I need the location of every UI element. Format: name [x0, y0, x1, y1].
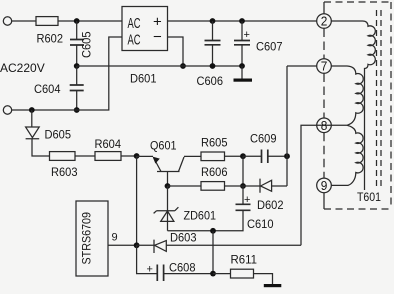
pin 9 circle — [317, 178, 332, 193]
node emitter junction — [134, 153, 140, 159]
svg-text:C604: C604 — [34, 82, 61, 96]
capacitor C604 — [76, 66, 78, 110]
wire node B down to node C — [242, 156, 244, 186]
wire pin8 drop — [301, 125, 317, 245]
svg-text:R604: R604 — [95, 137, 122, 151]
transformer frame top/right/bottom dashed — [324, 1, 391, 3]
node snubber tee — [210, 228, 216, 234]
resistor R603 — [50, 152, 76, 161]
wire bridge minus leg — [168, 37, 184, 66]
diode D605 — [26, 110, 50, 156]
wire pin7 drop — [287, 66, 317, 186]
wire junction to R611 — [213, 273, 231, 275]
pin 7 circle — [317, 59, 332, 74]
wire R602 to bridge AC1 — [58, 20, 122, 22]
ground symbol main — [241, 66, 243, 79]
svg-text:D603: D603 — [170, 231, 197, 245]
node pin9 junction — [134, 242, 140, 248]
wire R604 to emitter node — [121, 155, 137, 157]
svg-text:9: 9 — [112, 232, 118, 244]
zener ZD601 — [154, 186, 179, 231]
resistor R602 — [36, 17, 58, 26]
svg-text:D601: D601 — [130, 72, 157, 86]
bridge rectifier D601 — [122, 7, 168, 51]
svg-text:C609: C609 — [250, 132, 277, 146]
svg-text:C606: C606 — [197, 74, 224, 88]
svg-text:C610: C610 — [247, 217, 274, 231]
svg-text:Q601: Q601 — [150, 139, 177, 153]
capacitor C610 — [242, 186, 244, 204]
wire terminal to R602 — [12, 20, 36, 22]
node junction mid (C605/C604/gnd rail) — [74, 63, 80, 69]
svg-text:STRS6709: STRS6709 — [80, 212, 94, 265]
capacitor C605 — [76, 21, 78, 66]
capacitor C607 — [241, 21, 243, 66]
node bridge minus on rail — [180, 63, 186, 69]
wire bottom AC rail — [12, 37, 122, 110]
svg-text:2: 2 — [321, 14, 328, 29]
transformer T601 dashed frame left edge — [323, 2, 325, 14]
pin 8 circle — [317, 118, 332, 133]
pin 2 circle — [317, 14, 332, 29]
node C608/R611 junction — [210, 271, 216, 277]
resistor R605 — [201, 152, 225, 161]
capacitor C609 — [243, 155, 287, 157]
svg-text:−: − — [153, 29, 162, 46]
winding pins 8-9 — [331, 125, 363, 185]
transformer core lines — [376, 10, 378, 190]
svg-text:C607: C607 — [256, 40, 283, 54]
diode D603 — [137, 240, 301, 253]
svg-text:AC220V: AC220V — [0, 61, 45, 75]
node C607 top — [239, 18, 245, 24]
node junction top (R602/C605) — [74, 18, 80, 24]
terminal top-left (AC line input) — [3, 17, 11, 25]
node C607 bottom — [239, 63, 245, 69]
capacitor C608 electrolytic — [137, 245, 213, 273]
IC STRS6709 — [76, 201, 108, 276]
wire tee down to C608 row — [212, 231, 214, 274]
wire R603 to R604 — [75, 155, 95, 157]
svg-text:+: + — [244, 194, 250, 206]
resistor R604 — [95, 152, 121, 161]
node C (D602 cathode) — [240, 183, 246, 189]
svg-text:R605: R605 — [201, 136, 228, 150]
wire zener rail to C610 — [168, 210, 244, 231]
svg-text:D605: D605 — [45, 128, 72, 142]
wire emitter node down to pin9 row — [136, 156, 138, 245]
svg-text:+: + — [147, 264, 153, 276]
svg-text:R606: R606 — [201, 165, 228, 179]
terminal bottom-left (AC neutral input) — [3, 106, 11, 114]
wire base node to R606 — [168, 185, 202, 187]
winding primary pins 2-7 — [331, 21, 375, 190]
svg-text:D602: D602 — [257, 198, 284, 212]
capacitor C606 — [212, 21, 214, 66]
svg-text:R602: R602 — [37, 32, 64, 46]
svg-text:7: 7 — [321, 59, 328, 74]
wire ground rail — [77, 65, 242, 67]
wire IC pin 9 — [108, 244, 137, 246]
node junction bottom (C604/AC rail) — [74, 107, 80, 113]
node B (C609 left) — [240, 153, 246, 159]
node Q601 base — [165, 183, 171, 189]
svg-text:C608: C608 — [169, 261, 196, 275]
svg-text:+: + — [244, 29, 250, 41]
wire collector to R605 — [184, 155, 201, 157]
node C606 bottom — [210, 63, 216, 69]
svg-text:C605: C605 — [80, 31, 94, 58]
svg-text:R603: R603 — [51, 165, 78, 179]
svg-text:R611: R611 — [231, 253, 258, 267]
resistor R606 — [201, 182, 225, 191]
wire R611 to ground — [254, 274, 273, 284]
wire R606 to node C — [225, 185, 244, 187]
svg-text:8: 8 — [321, 118, 328, 133]
node D605 tap — [29, 107, 35, 113]
svg-text:T601: T601 — [357, 190, 381, 204]
transistor Q601 — [137, 155, 153, 157]
svg-text:9: 9 — [321, 178, 328, 193]
diode D602 — [243, 179, 287, 193]
node C609 right — [284, 153, 290, 159]
svg-text:ZD601: ZD601 — [184, 209, 217, 223]
wire dc plus rail — [168, 20, 318, 22]
ground symbol bottom — [264, 284, 282, 287]
svg-text:AC: AC — [128, 33, 141, 49]
wire R605 to node B — [225, 155, 244, 157]
node C606 top — [210, 18, 216, 24]
svg-text:AC: AC — [128, 16, 141, 32]
winding pins 7-8 — [317, 66, 363, 125]
resistor R611 — [231, 269, 254, 278]
